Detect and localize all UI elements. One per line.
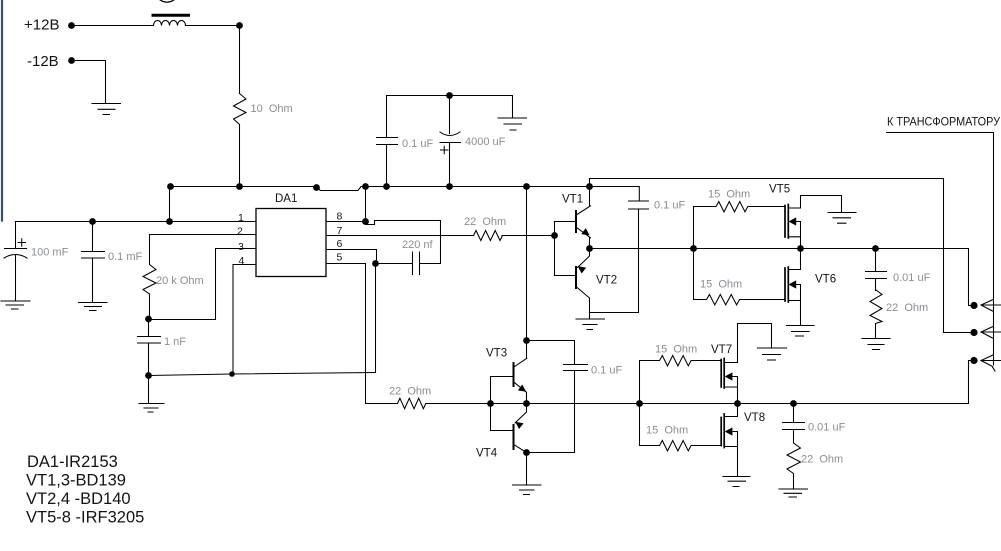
svg-text:VT1: VT1: [562, 194, 583, 206]
svg-text:VT5-8 -IRF3205: VT5-8 -IRF3205: [26, 509, 144, 527]
wire (top filter rail): [387, 96, 513, 119]
svg-text:22 Ohm: 22 Ohm: [801, 454, 843, 466]
svg-text:15 Ohm: 15 Ohm: [700, 279, 742, 291]
node: [523, 400, 530, 407]
svg-text:22 Ohm: 22 Ohm: [389, 386, 431, 398]
wire: [149, 294, 151, 319]
node: [446, 183, 453, 190]
ground: [513, 485, 542, 495]
wire pin8: [326, 187, 366, 222]
wire: [148, 376, 150, 404]
ground: [862, 339, 890, 350]
node: [372, 260, 379, 267]
svg-text:15 Ohm: 15 Ohm: [708, 189, 750, 201]
node: [166, 218, 173, 225]
transistor VT6: [784, 268, 786, 301]
svg-text:5: 5: [337, 252, 343, 264]
node: [586, 183, 593, 190]
wire (slanted net to pin6 node): [149, 373, 376, 376]
svg-text:7: 7: [337, 225, 343, 237]
wire pin3 link: [149, 249, 257, 320]
node: [523, 449, 530, 456]
resistor 15 Ohm (VT8 gate): [640, 441, 721, 451]
svg-text:8: 8: [337, 211, 343, 223]
node: [636, 400, 643, 407]
ground: [576, 319, 605, 330]
resistor 22 Ohm (VT7/8 snubber): [787, 443, 801, 489]
svg-text:VT8: VT8: [744, 412, 765, 424]
wire: [72, 25, 154, 27]
node: [790, 400, 797, 407]
wire: [239, 26, 241, 94]
svg-text:2: 2: [237, 226, 243, 238]
resistor 15 Ohm (VT5 gate): [694, 202, 786, 212]
svg-text:0.01 uF: 0.01 uF: [808, 422, 846, 434]
svg-text:15 Ohm: 15 Ohm: [646, 425, 688, 437]
ground: [1, 301, 30, 309]
ground: [787, 326, 815, 337]
resistor 15 Ohm (VT7 gate): [640, 356, 721, 366]
node: [523, 337, 530, 344]
wire (0.1uF loop VT3): [527, 341, 575, 453]
capacitor 4000 uF: [449, 96, 451, 134]
node: [236, 183, 243, 190]
wire: [169, 187, 171, 222]
svg-text:-12B: -12B: [27, 53, 59, 70]
wire (base tie VT3/VT4): [491, 377, 514, 431]
node: [313, 184, 320, 191]
resistor 10 Ohm: [234, 94, 247, 125]
node: [734, 400, 741, 407]
svg-text:1 nF: 1 nF: [164, 336, 186, 348]
svg-text:0.1 uF: 0.1 uF: [591, 365, 622, 377]
ground: [92, 104, 121, 115]
capacitor 1 nF: [138, 319, 161, 376]
svg-text:22 Ohm: 22 Ohm: [886, 302, 928, 314]
svg-text:10 Ohm: 10 Ohm: [251, 103, 293, 115]
svg-text:15 Ohm: 15 Ohm: [655, 344, 697, 356]
resistor 22 Ohm (driver bottom): [366, 398, 426, 408]
svg-text:4: 4: [239, 255, 245, 267]
node: [167, 183, 174, 190]
ground: [758, 348, 787, 360]
wire: [72, 61, 106, 104]
node +12B: [68, 22, 75, 29]
svg-text:VT4: VT4: [476, 448, 498, 460]
wire (VT1 collector to xfmr line): [590, 179, 972, 333]
wire (base tie VT1/VT2): [555, 222, 577, 276]
capacitor 100 mF: [5, 222, 27, 249]
ground: [139, 404, 164, 413]
node (terminal 1): [970, 302, 977, 309]
capacitor 0.1 uF (bus filter): [377, 96, 398, 187]
capacitor 0.1 uF (VT3): [564, 365, 588, 371]
capacitor 0.01 uF (VT5/6 snubber): [866, 249, 887, 291]
node: [362, 183, 369, 190]
wire pin1: [16, 221, 257, 223]
ground: [828, 213, 856, 224]
svg-text:VT3: VT3: [486, 348, 507, 360]
svg-text:22 Ohm: 22 Ohm: [464, 216, 506, 228]
wire (pin8 jog to 220nf): [366, 221, 441, 264]
svg-text:VT1,3-BD139: VT1,3-BD139: [26, 472, 126, 490]
node: [362, 218, 369, 225]
wire pin5: [326, 264, 366, 404]
transistor VT8: [720, 418, 722, 446]
terminal arrow 3: [981, 355, 1001, 371]
transistor VT7: [720, 360, 722, 388]
wire: [186, 25, 240, 27]
resistor 20 k Ohm: [143, 265, 156, 295]
svg-text:VT6: VT6: [815, 274, 836, 286]
node: [145, 316, 152, 323]
svg-text:6: 6: [337, 238, 343, 250]
svg-text:+12B: +12B: [24, 17, 59, 34]
terminal arrow 2: [981, 327, 1001, 339]
wire (gate feed VT5/VT6): [693, 207, 695, 300]
transistor VT1: [575, 211, 577, 232]
node: [797, 245, 804, 252]
resistor 22 Ohm (VT5/6 snubber): [870, 290, 882, 339]
node: [690, 245, 697, 252]
wire: [375, 264, 377, 373]
svg-text:VT2,4 -BD140: VT2,4 -BD140: [26, 490, 131, 508]
op-amp / IC DA1 box: [256, 209, 326, 277]
ground: [779, 489, 808, 497]
transistor VT5: [784, 206, 786, 238]
ground: [498, 118, 527, 130]
wire (transformer bus): [887, 133, 994, 366]
capacitor 0.1 mF: [82, 222, 105, 303]
wire (gate feed VT7/VT8): [639, 361, 641, 446]
svg-text:1: 1: [238, 212, 244, 224]
wire pin2: [150, 234, 257, 236]
svg-text:4000 uF: 4000 uF: [465, 136, 506, 148]
transistor VT3: [513, 363, 515, 386]
node: [551, 232, 558, 239]
node: [229, 371, 235, 377]
capacitor 0.01 uF (VT7/8 snubber): [783, 404, 805, 444]
transistor VT2: [575, 267, 577, 288]
ground: [723, 477, 750, 487]
svg-text:0.1 uF: 0.1 uF: [402, 138, 433, 150]
screen left border: [1, 1, 3, 221]
wire (VT3 collector feed): [526, 187, 528, 341]
node: [523, 183, 530, 190]
svg-text:0.01 uF: 0.01 uF: [893, 272, 931, 284]
svg-text:0.1 mF: 0.1 mF: [108, 251, 143, 263]
wire pin7: [326, 235, 474, 237]
wire pin6: [326, 250, 377, 264]
resistor 22 Ohm (driver top): [474, 231, 503, 241]
wire: [502, 235, 555, 237]
node: [89, 218, 96, 225]
node -12B: [68, 57, 75, 64]
node (terminal 2): [970, 329, 977, 336]
node: [446, 92, 453, 99]
wire (main +bus y=186): [171, 186, 316, 188]
node: [487, 400, 494, 407]
node: [236, 22, 243, 29]
capacitor 220 nf: [376, 252, 420, 275]
node: [145, 372, 152, 379]
wire: [149, 235, 151, 265]
resistor 15 Ohm (VT6 gate): [694, 295, 786, 305]
wire (emitter rail to VT5/6 gates): [590, 249, 972, 306]
svg-text:100 mF: 100 mF: [31, 247, 69, 259]
wire: [526, 453, 528, 486]
svg-text:К ТРАНСФОРМАТОРУ: К ТРАНСФОРМАТОРУ: [887, 117, 1001, 129]
svg-text:20 k Ohm: 20 k Ohm: [156, 275, 204, 287]
svg-text:DA1-IR2153: DA1-IR2153: [27, 453, 118, 471]
svg-text:3: 3: [238, 241, 244, 253]
svg-text:VT2: VT2: [596, 275, 617, 287]
node (terminal 3): [970, 357, 977, 364]
svg-text:VT7: VT7: [711, 344, 732, 356]
svg-text:220 nf: 220 nf: [402, 239, 434, 251]
wire (0.1uF to VT2 collector): [590, 209, 639, 313]
wire (lower rail): [426, 361, 971, 404]
inductor L1: [154, 21, 186, 26]
terminal arrow 1: [981, 300, 1001, 312]
svg-text:VT5: VT5: [769, 184, 790, 196]
wire: [239, 125, 241, 187]
node: [383, 183, 390, 190]
svg-text:0.1 uF: 0.1 uF: [654, 200, 685, 212]
svg-text:DA1: DA1: [275, 193, 297, 205]
transistor VT4: [513, 425, 515, 449]
wire pin4: [233, 265, 256, 375]
ground: [79, 303, 108, 311]
node: [872, 245, 879, 252]
capacitor 0.1 uF (VT1 bootstrap): [629, 201, 649, 209]
node: [586, 245, 593, 252]
